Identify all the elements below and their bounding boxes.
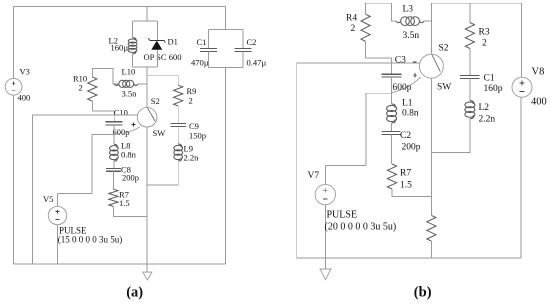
ground (a) — [143, 272, 152, 280]
capacitor C1 — [200, 47, 217, 49]
svg-text:200p: 200p — [122, 173, 139, 183]
wire trunk feed to L2/D1 box — [146, 6, 148, 20]
svg-text:0.47µ: 0.47µ — [247, 58, 267, 68]
wire C3 bottom feed — [391, 77, 393, 93]
inductor L10 — [119, 80, 126, 87]
svg-text:L1: L1 — [402, 99, 413, 109]
svg-text:2: 2 — [189, 96, 193, 106]
svg-text:3.5n: 3.5n — [403, 31, 420, 41]
svg-text:0.8n: 0.8n — [121, 150, 137, 160]
svg-text:R9: R9 — [187, 86, 197, 96]
wire resistor to rail (b) — [430, 241, 432, 258]
resistor R4 — [361, 14, 370, 41]
inductor L8 — [114, 144, 117, 147]
wire L2 branch upper stub — [132, 21, 134, 38]
svg-text:V5: V5 — [43, 194, 53, 204]
wire R10 bottom stub — [91, 101, 93, 111]
wire switch control plus curve (a) — [115, 127, 140, 134]
wire V5 top horizontal — [58, 192, 93, 194]
wire R7 bottom to trunk (b) — [392, 189, 432, 196]
wire control branch down (a) — [31, 115, 33, 264]
wire C1 C2 feed top — [225, 6, 227, 29]
svg-text:R7: R7 — [400, 169, 411, 179]
wire C8 to R7 (a) — [113, 171, 115, 189]
svg-text:2: 2 — [351, 24, 356, 34]
inductor L2 — [133, 38, 136, 41]
svg-text:(15 0 0 0 0 3u 5u): (15 0 0 0 0 3u 5u) — [58, 234, 123, 244]
svg-text:(20 0 0 0 0 3u 5u): (20 0 0 0 0 3u 5u) — [325, 221, 397, 232]
switch S2 plus mark (b) — [413, 74, 417, 76]
switch S2 (a) — [137, 107, 157, 127]
resistor R3 — [465, 23, 474, 49]
wire V7 bottom stub — [324, 205, 326, 269]
wire C1 lower stub — [207, 51, 209, 67]
wire C2 upper stub — [242, 29, 244, 48]
wire bottom rail (a) — [14, 263, 226, 265]
wire R3 to C1 (b) — [469, 49, 471, 76]
wire C2 to R7 (b) — [391, 134, 393, 164]
wire C1 to L2 (b) — [469, 78, 471, 100]
voltage source V3 — [5, 78, 22, 95]
svg-text:3.5n: 3.5n — [122, 89, 138, 99]
svg-text:C2: C2 — [247, 37, 257, 47]
wire C10 junction to L8 — [113, 135, 115, 145]
capacitor C9 — [171, 122, 186, 124]
svg-text:2.2n: 2.2n — [184, 153, 200, 163]
ground (b) — [320, 269, 331, 280]
svg-text:(b): (b) — [414, 284, 432, 300]
svg-text:(a): (a) — [126, 284, 143, 300]
wire C3 junction left — [366, 92, 392, 94]
svg-text:R3: R3 — [479, 28, 490, 38]
wire bottom rail (b) — [297, 257, 521, 259]
svg-text:C2: C2 — [400, 131, 411, 141]
svg-text:1.5: 1.5 — [119, 198, 130, 208]
resistor R7 (b) — [387, 164, 396, 189]
voltage source V5 — [48, 206, 66, 224]
svg-text:1.5: 1.5 — [400, 181, 412, 191]
svg-text:V8: V8 — [532, 67, 545, 78]
wire switch control left (a) — [32, 114, 137, 116]
wire switch control plus curve (b) — [392, 77, 421, 93]
wire L2 bottom jog to trunk (b) — [431, 119, 470, 153]
svg-text:S2: S2 — [439, 43, 449, 53]
wire R9 branch top — [147, 76, 178, 86]
wire R9 to C9 — [177, 106, 179, 123]
wire L2/D1 box top edge — [133, 20, 158, 22]
svg-text:400: 400 — [531, 97, 547, 108]
svg-text:R4: R4 — [346, 14, 357, 24]
wire L3 left stub — [392, 3, 397, 21]
wire top rail left (b) — [366, 2, 392, 4]
inductor L1 — [392, 104, 396, 108]
svg-text:470µ: 470µ — [191, 58, 209, 68]
wire R10 top link — [92, 68, 119, 83]
switch S2 plus mark (a) — [132, 124, 136, 126]
resistor R9 — [174, 85, 183, 106]
voltage source V7 — [315, 184, 335, 204]
wire trunk top (b) — [430, 3, 432, 54]
wire C10 junction left — [92, 134, 114, 136]
wire junction down (b) — [365, 93, 367, 165]
svg-text:200p: 200p — [402, 143, 421, 153]
wire L1 to C2 (b) — [391, 123, 393, 131]
svg-text:150p: 150p — [189, 131, 206, 141]
wire D1 branch lower stub — [156, 50, 158, 67]
wire V8 bottom stub — [520, 97, 522, 258]
wire top rail right (b) — [431, 2, 521, 4]
svg-text:2: 2 — [482, 39, 487, 49]
svg-text:OP SC 600: OP SC 600 — [144, 52, 182, 62]
wire V5 bottom stub — [57, 225, 59, 264]
svg-text:L3: L3 — [403, 5, 414, 15]
svg-text:C1: C1 — [484, 74, 495, 84]
inductor L3 — [401, 17, 410, 26]
wire D1 branch upper stub — [156, 21, 158, 41]
svg-text:C3: C3 — [395, 56, 406, 66]
wire trunk below switch (b) — [430, 78, 432, 215]
capacitor C10 — [105, 121, 122, 123]
resistor R7 (a) — [109, 189, 118, 206]
capacitor C2 — [234, 47, 251, 49]
wire junction down to V5 level — [91, 135, 93, 194]
wire control branch down (b) — [296, 63, 298, 258]
resistor damping (b) — [427, 215, 436, 241]
resistor R10 — [88, 77, 97, 101]
wire L9 bottom jog to trunk — [147, 161, 178, 185]
svg-text:C9: C9 — [189, 121, 199, 131]
wire R7 bottom to trunk (a) — [113, 206, 147, 216]
svg-text:SW: SW — [437, 82, 451, 92]
wire switch control left (b) — [297, 62, 420, 64]
inductor L9 — [178, 144, 181, 147]
wire L2 branch lower stub — [132, 54, 134, 67]
svg-text:0.8n: 0.8n — [402, 109, 419, 119]
svg-text:160µ: 160µ — [111, 43, 129, 53]
svg-text:V7: V7 — [308, 171, 320, 181]
wire V3 bottom branch — [13, 95, 15, 264]
wire V8 top stub — [521, 3, 523, 77]
capacitor C1 (b) — [460, 74, 479, 76]
svg-text:D1: D1 — [168, 36, 178, 46]
wire V5 top stub — [57, 193, 59, 206]
svg-text:600p: 600p — [393, 83, 412, 93]
wire C1/C2 box bottom edge — [208, 67, 243, 69]
svg-text:L2: L2 — [479, 103, 490, 113]
wire C3 top feed — [391, 58, 393, 74]
wire trunk below switch — [146, 127, 148, 272]
wire V3 top branch — [13, 6, 15, 78]
diode D1 — [151, 41, 162, 50]
wire R3 top stub — [469, 3, 471, 22]
inductor L2 (b) — [470, 101, 474, 104]
switch S2 (b) — [419, 54, 443, 78]
wire V7 top stub — [324, 165, 326, 184]
wire C1 C2 feed bottom — [225, 68, 227, 265]
svg-text:400: 400 — [18, 93, 31, 103]
svg-text:2: 2 — [79, 83, 83, 93]
wire C9 to L9 — [177, 126, 179, 144]
wire C2 lower stub — [242, 51, 244, 67]
wire L10 to trunk — [138, 83, 147, 85]
wire R4 bottom stub — [365, 41, 367, 58]
wire L2/D1 box bottom edge — [133, 66, 158, 68]
svg-text:2.2n: 2.2n — [479, 115, 496, 125]
svg-text:160p: 160p — [484, 84, 503, 94]
svg-text:PULSE: PULSE — [327, 210, 358, 221]
wire C10 bottom feed — [113, 125, 115, 135]
capacitor C2 (b) — [382, 130, 401, 132]
svg-text:L10: L10 — [122, 67, 136, 77]
wire L8 to C8 — [113, 161, 115, 168]
wire R4 to C3 top — [366, 57, 392, 59]
wire C1 upper stub — [207, 29, 209, 48]
wire trunk box to switch — [146, 67, 148, 108]
wire top rail (a) — [14, 5, 226, 7]
wire C10 top feed — [113, 111, 115, 122]
svg-text:SW: SW — [153, 128, 166, 138]
wire V7 top horizontal — [325, 164, 366, 166]
svg-text:S2: S2 — [151, 96, 160, 106]
wire R4 top stub — [365, 3, 367, 14]
voltage source V8 — [512, 77, 532, 97]
switch S2 minus mark (b) — [413, 61, 417, 63]
svg-text:C1: C1 — [197, 37, 207, 47]
svg-text:C10: C10 — [114, 108, 128, 118]
capacitor C8 — [106, 168, 121, 170]
wire C3 junction to L1 — [391, 93, 393, 104]
wire R10 to C10 top — [92, 110, 114, 112]
capacitor C3 — [382, 73, 402, 75]
svg-text:V3: V3 — [20, 67, 30, 77]
wire C1/C2 box top edge — [208, 28, 243, 30]
wire L3 right link to trunk — [424, 20, 431, 22]
